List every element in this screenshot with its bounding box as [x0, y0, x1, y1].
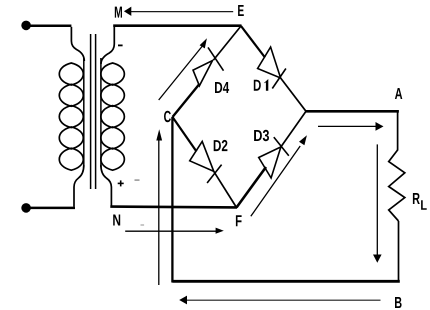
node M label — [115, 7, 122, 18]
arrow current N to F — [125, 228, 224, 234]
diode D3 — [259, 137, 289, 178]
node A label — [395, 88, 402, 99]
wire bridge F to D3 — [237, 167, 267, 208]
arrow current A to resistor — [318, 122, 384, 131]
node E label — [238, 5, 244, 16]
node F label — [236, 215, 242, 226]
wire M-E top — [113, 24, 241, 27]
faint artifact mark near plus — [135, 179, 140, 181]
wire primary bottom lead — [74, 165, 84, 207]
wire secondary bottom lead — [101, 165, 112, 207]
transformer T1 secondary winding loops — [101, 63, 125, 170]
wire primary top lead — [71, 27, 84, 61]
arrow current E to M — [124, 7, 233, 16]
arrow current F to right node direction — [251, 135, 307, 216]
node C label — [164, 111, 171, 122]
wire secondary winding spine — [100, 58, 102, 167]
arrow current B to left — [179, 296, 380, 305]
wire primary bottom — [26, 207, 75, 210]
label plus polarity — [118, 180, 124, 186]
wire N bottom of secondary — [110, 205, 237, 208]
label D3 — [254, 130, 269, 141]
resistor RL — [389, 150, 405, 221]
arrow current C to E direction — [159, 38, 207, 100]
wire secondary top lead — [101, 27, 114, 65]
wire return to C — [171, 117, 173, 283]
arrow current down through load — [373, 144, 382, 262]
arrow current up to C — [156, 129, 162, 285]
label D1 — [254, 79, 268, 91]
label D4 — [215, 82, 229, 93]
label RL — [413, 193, 420, 204]
wire bridge D2 to F — [214, 171, 237, 207]
transformer T1 core — [91, 34, 96, 189]
terminal dot top-left — [21, 21, 31, 31]
diode D1 — [258, 47, 286, 89]
faint artifact mark below N — [141, 224, 145, 225]
wire bottom rail — [172, 280, 399, 283]
wire bridge E to D1 — [241, 26, 265, 58]
wire resistor down to bottom rail — [398, 221, 400, 283]
node B label — [395, 297, 402, 308]
terminal dot bottom-left — [21, 203, 31, 213]
wire bridge C to D4 — [173, 84, 200, 117]
wire A down to resistor — [397, 111, 399, 150]
wire right node to A — [306, 110, 399, 113]
wire primary winding spine — [83, 58, 85, 167]
transformer T1 primary winding loops — [59, 63, 83, 170]
wire bridge D4 to E — [214, 26, 242, 60]
node N label — [113, 215, 120, 226]
diode D4 — [193, 47, 224, 85]
wire bridge D3 to right node — [281, 111, 306, 147]
diode D2 — [190, 141, 222, 183]
label minus polarity — [118, 44, 123, 46]
wire bridge C to D2 — [173, 117, 197, 152]
wire bridge D1 to right node — [281, 78, 306, 111]
label D2 — [214, 140, 228, 151]
wire primary top — [26, 24, 71, 27]
